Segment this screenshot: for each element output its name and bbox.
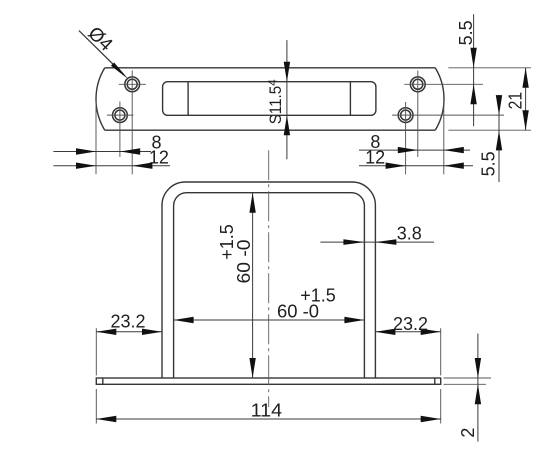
arrowhead leader Ø4 bbox=[111, 63, 128, 80]
extension base plate right end down bbox=[440, 389, 442, 424]
arrowhead 60 horizontal right bbox=[344, 317, 364, 323]
dim line 5.5 top right bbox=[473, 14, 475, 126]
front view base plate bbox=[96, 378, 440, 384]
arrowhead 12 left b bbox=[132, 163, 152, 169]
crosshair hole top-left horizontal bbox=[119, 83, 146, 85]
dim line 21 right bbox=[525, 68, 527, 130]
arrowhead 5.5 top a bbox=[470, 48, 476, 68]
dim line 114 bbox=[96, 418, 440, 420]
dim line 3.8 bbox=[320, 241, 434, 243]
extension line plate left end (top view) bbox=[95, 101, 97, 175]
arrowhead 2 bottom bbox=[475, 384, 481, 404]
extension base plate top right bbox=[444, 377, 492, 379]
extension line plate right end (top view) bbox=[443, 101, 445, 175]
arrowhead 12 left a bbox=[76, 163, 96, 169]
slot divider right bbox=[349, 82, 351, 116]
dim line 60 horizontal front view bbox=[174, 319, 365, 321]
arrowhead 60 vertical top bbox=[249, 193, 255, 213]
dim line 60 vertical front view bbox=[252, 193, 254, 378]
arrowhead 114 right bbox=[421, 416, 441, 422]
extension/centerline hole bottom-right bbox=[405, 102, 407, 174]
leader line Ø4 bbox=[79, 31, 124, 75]
arrowhead 23.2 left a bbox=[96, 329, 116, 335]
arrowhead 3.8 left bbox=[343, 239, 364, 245]
top view slot bbox=[163, 82, 376, 116]
extension 23.2 right bbox=[440, 328, 442, 375]
arrowhead 60 horizontal left bbox=[174, 317, 194, 323]
extension plate bottom edge right bbox=[448, 129, 531, 131]
dim line 8 right bbox=[359, 149, 470, 151]
arrowhead 21 bottom bbox=[522, 110, 528, 130]
hole top-left inner bbox=[127, 79, 137, 89]
hole bottom-left inner bbox=[115, 110, 125, 120]
arrowhead 5.5 bottom b bbox=[496, 130, 502, 150]
svg-text:S11.54: S11.54 bbox=[266, 79, 285, 125]
extension/centerline hole bottom-left bbox=[119, 102, 121, 158]
hole top-left outer bbox=[125, 77, 140, 92]
svg-text:23.2: 23.2 bbox=[111, 312, 146, 332]
arrowhead 23.2 right a bbox=[375, 329, 395, 335]
base plate right end tick bbox=[434, 378, 436, 384]
arrowhead 5.5 bottom a bbox=[496, 95, 502, 115]
arrowhead 8 right b bbox=[444, 147, 464, 153]
top view plate outline bbox=[96, 68, 444, 130]
dim line 23.2 left bbox=[96, 331, 162, 333]
arrowhead S11.5 top bbox=[284, 62, 290, 82]
extension base plate left end down bbox=[95, 389, 97, 424]
arrowhead 2 top bbox=[475, 358, 481, 378]
svg-text:60 -0: 60 -0 bbox=[234, 240, 254, 284]
svg-text:5.5: 5.5 bbox=[479, 151, 499, 176]
svg-text:12: 12 bbox=[365, 148, 385, 168]
front view bracket outer outline bbox=[162, 182, 375, 378]
crosshair hole bottom-right horizontal bbox=[392, 114, 504, 116]
extension/centerline hole top-left bbox=[131, 71, 133, 175]
extension base plate bottom right bbox=[444, 383, 487, 385]
arrowhead 12 right a bbox=[386, 163, 406, 169]
arrowhead 60 vertical bottom bbox=[249, 358, 255, 378]
front view bracket inner outline bbox=[174, 193, 365, 378]
arrowhead 23.2 left b bbox=[142, 329, 162, 335]
dim line 8 left bbox=[53, 151, 151, 153]
arrowhead 8 right a bbox=[398, 147, 418, 153]
arrowhead 12 right b bbox=[444, 163, 464, 169]
arrowhead 5.5 top b bbox=[470, 84, 476, 104]
dim line 5.5 bottom right bbox=[498, 95, 500, 182]
svg-text:21: 21 bbox=[506, 92, 526, 110]
hole top-right inner bbox=[413, 79, 423, 89]
extension/centerline hole top-right bbox=[417, 71, 419, 158]
extension 23.2 left bbox=[95, 328, 97, 375]
arrowhead 8 left b bbox=[120, 148, 140, 154]
svg-text:3.8: 3.8 bbox=[397, 223, 422, 243]
centerline front view bbox=[268, 150, 270, 407]
arrowhead 8 left a bbox=[76, 148, 96, 154]
hole bottom-right inner bbox=[401, 110, 411, 120]
svg-text:60 -0: 60 -0 bbox=[277, 302, 319, 322]
dim line 23.2 right bbox=[375, 331, 440, 333]
arrowhead S11.5 bottom bbox=[284, 115, 290, 135]
svg-text:Ø4: Ø4 bbox=[84, 23, 117, 56]
hole bottom-right outer bbox=[398, 108, 413, 123]
arrowhead 114 left bbox=[96, 416, 116, 422]
dim line 2 bbox=[477, 334, 479, 442]
hole top-right outer bbox=[410, 77, 425, 92]
crosshair hole top-right horizontal bbox=[404, 83, 483, 85]
extension plate top edge right bbox=[448, 67, 531, 69]
svg-text:23.2: 23.2 bbox=[393, 314, 428, 334]
dim line S11.5 vertical bbox=[286, 40, 288, 159]
svg-text:2: 2 bbox=[458, 428, 478, 438]
slot divider left bbox=[187, 82, 189, 116]
arrowhead 21 top bbox=[522, 68, 528, 88]
hole bottom-left outer bbox=[113, 108, 128, 123]
dim line 12 right bbox=[359, 165, 473, 167]
base plate left end tick bbox=[102, 378, 104, 384]
dim line 12 left bbox=[53, 165, 170, 167]
arrowhead 23.2 right b bbox=[421, 329, 441, 335]
crosshair hole bottom-left horizontal bbox=[107, 114, 133, 116]
svg-text:5.5: 5.5 bbox=[456, 20, 476, 45]
svg-text:12: 12 bbox=[149, 148, 169, 168]
svg-text:114: 114 bbox=[251, 401, 283, 421]
arrowhead 3.8 right bbox=[375, 239, 396, 245]
